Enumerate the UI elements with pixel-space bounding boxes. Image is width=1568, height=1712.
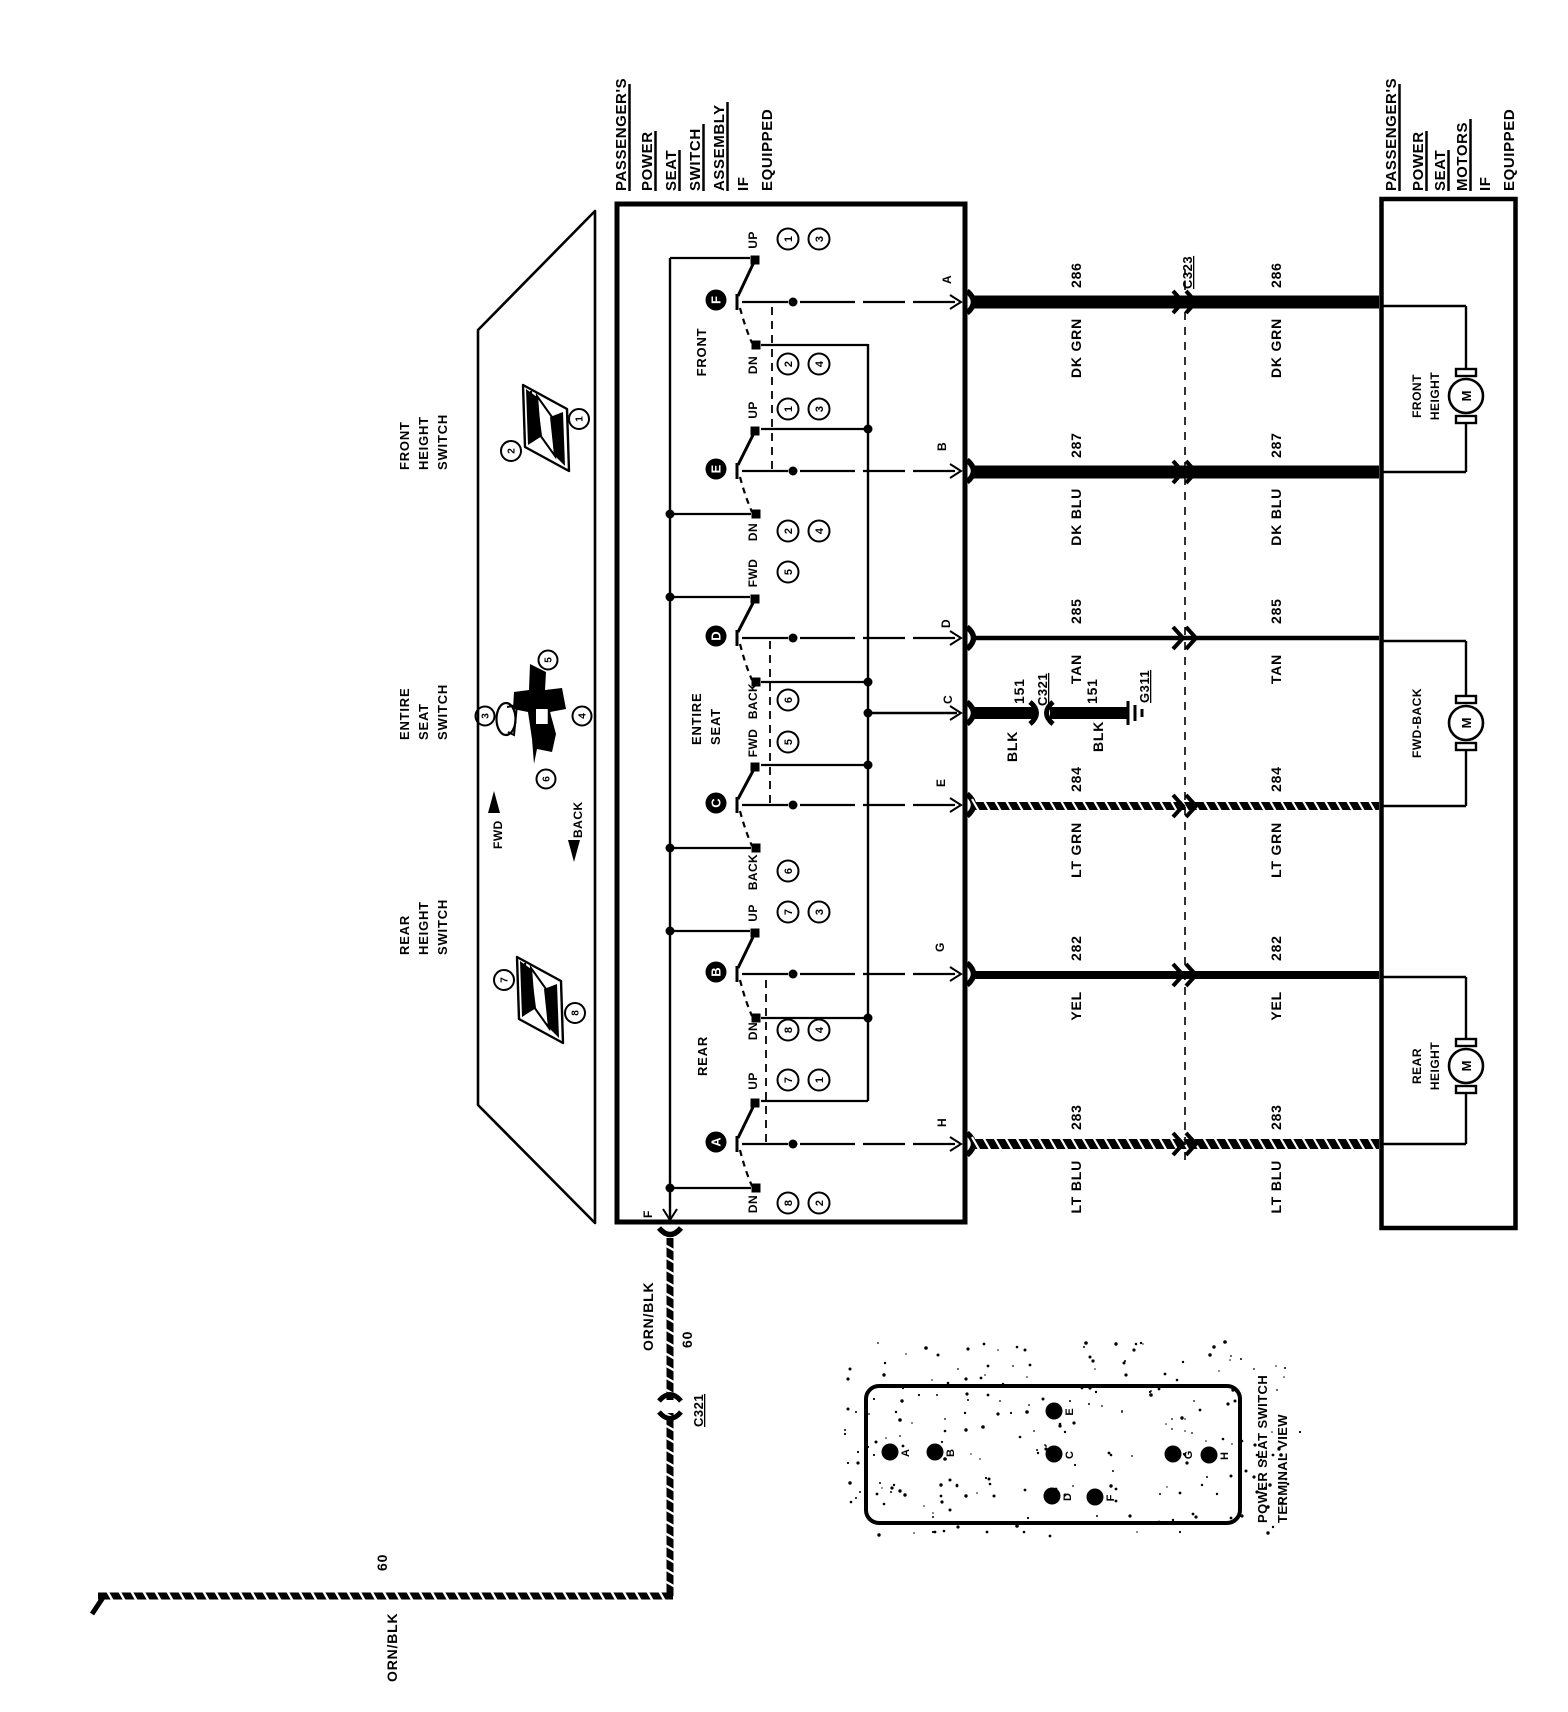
svg-text:1: 1	[575, 416, 586, 422]
svg-text:BACK: BACK	[746, 854, 760, 890]
joystick terminal 4	[573, 707, 592, 726]
svg-text:FWD: FWD	[746, 559, 760, 588]
svg-text:8: 8	[783, 1027, 795, 1033]
wire label DK BLU 287 upper	[1068, 432, 1084, 545]
joystick terminal 3	[476, 707, 495, 726]
wire ORN/BLK 60 horizontal	[663, 1238, 677, 1596]
svg-text:2: 2	[783, 528, 795, 534]
wire label BLK 151 lower	[1084, 678, 1106, 752]
svg-text:1: 1	[783, 236, 795, 242]
svg-text:C321: C321	[691, 1394, 706, 1427]
svg-text:4: 4	[814, 527, 826, 534]
switch assembly box	[617, 204, 965, 1222]
svg-text:LT GRN: LT GRN	[1068, 822, 1084, 878]
svg-text:HEIGHT: HEIGHT	[416, 416, 431, 470]
power feed bus from pin F	[669, 258, 671, 1222]
seat switch plate pictorial	[478, 211, 595, 1223]
svg-text:LT BLU: LT BLU	[1268, 1160, 1284, 1214]
svg-text:ORN/BLK: ORN/BLK	[384, 1613, 400, 1682]
svg-text:3: 3	[814, 236, 826, 242]
FWD arrow label	[488, 791, 505, 849]
wire label BLK 151 upper	[1004, 678, 1027, 762]
svg-text:M: M	[1459, 391, 1474, 402]
svg-text:E: E	[1064, 1408, 1076, 1415]
svg-text:287: 287	[1268, 432, 1284, 458]
svg-text:1: 1	[814, 1077, 826, 1083]
svg-text:G311: G311	[1137, 670, 1152, 703]
wire label LT BLU 283 upper	[1068, 1104, 1084, 1213]
svg-text:M: M	[1459, 718, 1474, 729]
svg-text:TAN: TAN	[1068, 654, 1084, 684]
svg-text:TAN: TAN	[1268, 654, 1284, 684]
mechanical link B-A	[765, 976, 767, 1142]
svg-text:SEAT: SEAT	[708, 708, 723, 745]
wire label DK GRN 286 upper	[1068, 262, 1084, 378]
wire label TAN 285 upper	[1068, 598, 1084, 684]
pin B	[935, 442, 974, 482]
wire YEL 282	[972, 964, 1379, 986]
svg-text:BACK: BACK	[746, 683, 760, 719]
switch D	[666, 559, 956, 719]
svg-text:DK GRN: DK GRN	[1268, 318, 1284, 378]
svg-text:C: C	[941, 695, 955, 704]
svg-text:SWITCH: SWITCH	[435, 414, 450, 470]
svg-text:ENTIRE: ENTIRE	[689, 693, 704, 745]
wire label YEL 282 upper	[1068, 935, 1084, 1020]
wire LT BLU 283	[972, 1133, 1379, 1155]
rear height switch label	[397, 899, 450, 955]
front height switch label	[397, 414, 450, 470]
svg-text:REAR: REAR	[1410, 1048, 1424, 1084]
svg-text:POWER: POWER	[1410, 131, 1427, 191]
BACK arrow label	[568, 801, 585, 862]
wire label TAN 285 lower	[1268, 598, 1284, 684]
svg-text:PASSENGER'S: PASSENGER'S	[1383, 78, 1400, 191]
svg-text:UP: UP	[746, 231, 760, 248]
svg-text:287: 287	[1068, 432, 1084, 458]
svg-text:3: 3	[481, 713, 492, 719]
svg-text:EQUIPPED: EQUIPPED	[759, 109, 776, 191]
pin F	[641, 1209, 681, 1235]
svg-text:1: 1	[783, 406, 795, 412]
svg-text:EQUIPPED: EQUIPPED	[1501, 109, 1518, 191]
svg-text:B: B	[709, 967, 724, 976]
svg-text:SWITCH: SWITCH	[435, 684, 450, 740]
svg-text:H: H	[1219, 1452, 1231, 1460]
wire BLK 151 to ground	[972, 707, 1128, 719]
svg-text:A: A	[900, 1449, 912, 1457]
svg-text:BLK: BLK	[1090, 721, 1106, 752]
svg-text:DK BLU: DK BLU	[1068, 488, 1084, 546]
switch F	[670, 229, 955, 375]
svg-text:284: 284	[1068, 766, 1084, 792]
switch A	[666, 1070, 956, 1214]
svg-text:REAR: REAR	[397, 915, 412, 955]
svg-text:60: 60	[679, 1331, 695, 1348]
svg-text:BACK: BACK	[571, 801, 585, 838]
pin H	[935, 1118, 974, 1155]
svg-text:2: 2	[507, 448, 518, 454]
svg-text:B: B	[945, 1449, 957, 1457]
svg-text:FWD: FWD	[746, 729, 760, 758]
pin D	[939, 619, 974, 649]
svg-text:IF: IF	[1477, 176, 1494, 191]
wire label LT BLU 283 lower	[1268, 1104, 1284, 1213]
pin A	[940, 275, 974, 313]
svg-text:8: 8	[783, 1200, 795, 1206]
svg-text:286: 286	[1068, 262, 1084, 288]
pin C	[941, 695, 974, 724]
svg-text:4: 4	[578, 713, 589, 719]
entire seat joystick drawing	[497, 664, 567, 764]
switch B	[666, 902, 956, 1041]
terminal view label	[1255, 1375, 1290, 1523]
front height rocker switch drawing	[523, 385, 569, 471]
svg-text:286: 286	[1268, 262, 1284, 288]
svg-text:SEAT: SEAT	[663, 150, 680, 191]
wire label ORN/BLK 60 far end	[374, 1554, 400, 1682]
svg-text:UP: UP	[746, 904, 760, 921]
svg-text:60: 60	[374, 1554, 390, 1571]
wire DK BLU 287	[972, 461, 1379, 483]
rear height motor	[1383, 977, 1483, 1144]
ground G311	[1128, 670, 1152, 725]
svg-text:282: 282	[1068, 935, 1084, 961]
svg-text:151: 151	[1084, 678, 1100, 704]
svg-text:FRONT: FRONT	[694, 328, 709, 377]
rear rocker terminal 7	[494, 970, 514, 990]
svg-text:DK GRN: DK GRN	[1068, 318, 1084, 378]
svg-text:LT GRN: LT GRN	[1268, 822, 1284, 878]
svg-text:C: C	[709, 798, 724, 808]
svg-text:6: 6	[542, 776, 553, 782]
front height motor	[1383, 306, 1483, 472]
wire label DK BLU 287 lower	[1268, 432, 1284, 545]
motors box	[1382, 199, 1516, 1228]
svg-text:FRONT: FRONT	[1410, 374, 1424, 418]
svg-text:C323: C323	[1180, 256, 1195, 289]
ground bus to pin C	[867, 344, 869, 1101]
svg-text:SWITCH: SWITCH	[687, 128, 704, 191]
wire label YEL 282 lower	[1268, 935, 1284, 1020]
svg-text:M: M	[1459, 1061, 1474, 1072]
svg-text:E: E	[934, 779, 948, 787]
wire LT GRN 284	[972, 795, 1379, 817]
svg-text:HEIGHT: HEIGHT	[1428, 372, 1442, 421]
svg-text:F: F	[709, 296, 724, 304]
svg-text:A: A	[709, 1137, 724, 1147]
passenger power seat motors label	[1383, 78, 1518, 191]
svg-text:PASSENGER'S: PASSENGER'S	[613, 78, 630, 191]
wire label LT GRN 284 upper	[1068, 766, 1084, 878]
svg-text:5: 5	[783, 739, 795, 745]
svg-text:FWD: FWD	[491, 820, 505, 849]
svg-text:3: 3	[814, 909, 826, 915]
svg-text:UP: UP	[746, 1072, 760, 1089]
svg-text:283: 283	[1068, 1104, 1084, 1130]
switch C	[666, 729, 956, 890]
wire label DK GRN 286 lower	[1268, 262, 1284, 378]
svg-text:283: 283	[1268, 1104, 1284, 1130]
svg-text:4: 4	[814, 360, 826, 367]
svg-text:6: 6	[783, 697, 795, 703]
svg-text:C321: C321	[1035, 673, 1050, 706]
svg-text:F: F	[641, 1211, 655, 1218]
rear rocker terminal 8	[565, 1003, 585, 1023]
svg-text:H: H	[935, 1118, 949, 1127]
wire ORN/BLK 60 vertical	[92, 1589, 673, 1614]
svg-text:ORN/BLK: ORN/BLK	[640, 1282, 656, 1351]
svg-text:285: 285	[1268, 598, 1284, 624]
svg-text:2: 2	[814, 1200, 826, 1206]
svg-text:BLK: BLK	[1004, 731, 1020, 762]
svg-text:MOTORS: MOTORS	[1454, 122, 1471, 191]
svg-text:3: 3	[814, 406, 826, 412]
svg-text:FWD-BACK: FWD-BACK	[1410, 688, 1424, 758]
wire label ORN/BLK 60 near box	[640, 1282, 695, 1351]
svg-text:285: 285	[1068, 598, 1084, 624]
svg-text:UP: UP	[746, 401, 760, 418]
rear height rocker switch drawing	[517, 957, 563, 1043]
svg-text:6: 6	[783, 868, 795, 874]
mechanical link D-C	[769, 640, 771, 803]
svg-text:POWER: POWER	[639, 131, 656, 191]
joystick terminal 5	[539, 651, 558, 670]
joystick terminal 6	[537, 770, 556, 789]
svg-text:HEIGHT: HEIGHT	[1428, 1042, 1442, 1091]
svg-text:7: 7	[783, 909, 795, 915]
wire DK GRN 286	[972, 291, 1379, 313]
connector C323 dashed line	[1184, 270, 1186, 1160]
wire label LT GRN 284 lower	[1268, 766, 1284, 878]
svg-text:G: G	[933, 943, 947, 952]
svg-text:DN: DN	[746, 523, 760, 541]
svg-text:SEAT: SEAT	[416, 703, 431, 740]
svg-text:IF: IF	[735, 176, 752, 191]
passenger power seat switch assembly label	[613, 78, 776, 191]
connector C321 on feed wire	[659, 1394, 706, 1427]
pin G	[933, 943, 974, 985]
front rocker terminal 1	[569, 409, 589, 429]
svg-text:LT BLU: LT BLU	[1068, 1160, 1084, 1214]
fwd-back motor	[1383, 641, 1483, 806]
svg-text:D: D	[709, 631, 724, 640]
svg-text:ENTIRE: ENTIRE	[397, 688, 412, 740]
svg-text:4: 4	[814, 1026, 826, 1033]
svg-text:YEL: YEL	[1268, 991, 1284, 1021]
svg-text:E: E	[709, 464, 724, 473]
svg-text:A: A	[940, 275, 954, 284]
pin E	[934, 779, 974, 816]
front rocker terminal 2	[501, 441, 521, 461]
svg-text:POWER SEAT SWITCH: POWER SEAT SWITCH	[1255, 1375, 1270, 1523]
section label ENTIRE SEAT	[689, 693, 723, 745]
ground bus branch to pin C	[868, 712, 957, 714]
svg-text:2: 2	[783, 361, 795, 367]
svg-text:151: 151	[1011, 678, 1027, 704]
entire seat switch label	[397, 684, 450, 740]
svg-text:DN: DN	[746, 1195, 760, 1213]
svg-text:B: B	[935, 442, 949, 451]
svg-text:SEAT: SEAT	[1432, 150, 1449, 191]
svg-text:SWITCH: SWITCH	[435, 899, 450, 955]
switch E	[666, 399, 956, 542]
svg-text:YEL: YEL	[1068, 991, 1084, 1021]
mechanical link F-E	[771, 304, 773, 469]
power seat switch terminal view	[866, 1386, 1240, 1523]
svg-text:D: D	[939, 619, 953, 628]
svg-text:8: 8	[571, 1010, 582, 1016]
svg-text:FRONT: FRONT	[397, 421, 412, 470]
svg-text:ASSEMBLY: ASSEMBLY	[711, 104, 728, 191]
svg-text:7: 7	[500, 977, 511, 983]
svg-text:5: 5	[783, 569, 795, 575]
svg-text:5: 5	[544, 657, 555, 663]
scan speckle noise	[844, 1340, 1301, 1537]
svg-text:C: C	[1064, 1451, 1076, 1459]
svg-text:HEIGHT: HEIGHT	[416, 901, 431, 955]
svg-text:DN: DN	[746, 356, 760, 374]
svg-text:DN: DN	[746, 1022, 760, 1040]
svg-text:282: 282	[1268, 935, 1284, 961]
svg-text:284: 284	[1268, 766, 1284, 792]
svg-text:DK BLU: DK BLU	[1268, 488, 1284, 546]
wire TAN 285	[972, 627, 1379, 649]
connector C321 inline	[1030, 673, 1053, 724]
svg-text:REAR: REAR	[695, 1036, 710, 1076]
svg-text:7: 7	[783, 1077, 795, 1083]
